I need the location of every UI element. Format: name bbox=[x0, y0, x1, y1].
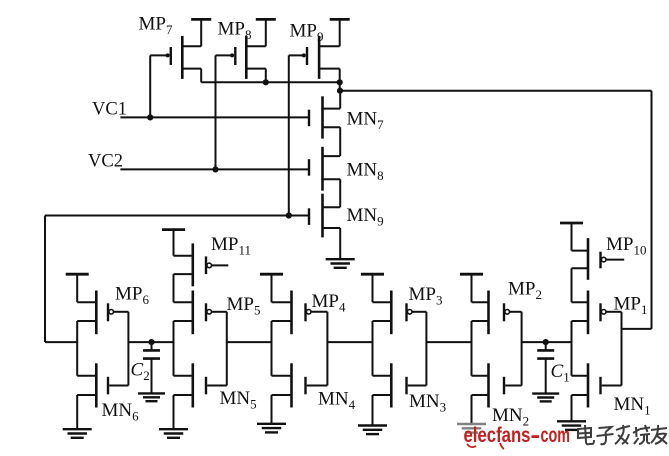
node VC2 junction bbox=[212, 166, 218, 172]
label MN9 bbox=[347, 205, 384, 229]
wire chain feedback to stage6 output bbox=[45, 341, 77, 343]
svg-text:MN1: MN1 bbox=[614, 394, 651, 418]
label MP6 bbox=[115, 284, 149, 308]
label MP5 bbox=[227, 294, 261, 318]
label MP4 bbox=[312, 291, 346, 315]
transistor MP1 bbox=[572, 291, 622, 335]
svg-text:MN7: MN7 bbox=[347, 109, 385, 133]
node PMOS drain junction bbox=[337, 79, 343, 85]
label VC1 bbox=[92, 100, 127, 120]
svg-text:MN4: MN4 bbox=[318, 389, 356, 413]
label MN5 bbox=[220, 388, 257, 412]
label MN7 bbox=[347, 109, 385, 133]
logo elecfans.com watermark bbox=[464, 424, 571, 449]
wire left feedback down bbox=[44, 216, 46, 343]
svg-text:MP7: MP7 bbox=[139, 14, 173, 38]
power VDD symbol above MP2 bbox=[460, 274, 483, 302]
transistor MP7 bbox=[150, 36, 201, 79]
wire output to right edge bbox=[340, 90, 652, 92]
svg-text:MP2: MP2 bbox=[508, 279, 542, 303]
wire stage6 input to stage5 output bbox=[128, 341, 173, 343]
power VDD symbol above MP8 bbox=[256, 19, 276, 46]
wire stage5 input to stage4 output bbox=[227, 341, 272, 343]
label MN3 bbox=[409, 391, 446, 415]
node C2 junction bbox=[148, 339, 154, 345]
node VC1 junction bbox=[147, 114, 153, 120]
wire PMOS drain rail bbox=[201, 81, 340, 83]
power VDD symbol above MP11 bbox=[162, 230, 185, 256]
label MP10 bbox=[606, 234, 646, 258]
wire MN4 source down bbox=[271, 395, 273, 424]
label MN6 bbox=[102, 400, 140, 424]
node C1 junction bbox=[543, 339, 549, 345]
wire stage5 input rail bbox=[226, 312, 228, 386]
svg-text:MP10: MP10 bbox=[606, 234, 646, 258]
transistor MN3 bbox=[373, 363, 427, 407]
svg-text:MN9: MN9 bbox=[347, 205, 384, 229]
wire MN9 source down bbox=[339, 228, 341, 259]
wire MP2-MN2 drain rail bbox=[471, 321, 473, 376]
ground below MN3 bbox=[358, 426, 387, 435]
capacitor C1 bbox=[537, 342, 554, 394]
wire MP9 gate to MN9 net bbox=[288, 55, 290, 215]
svg-text:C1: C1 bbox=[551, 361, 570, 385]
label C2 bbox=[131, 360, 150, 384]
wire MP5-MN5 drain rail bbox=[173, 321, 175, 376]
transistor MN2 bbox=[472, 363, 522, 407]
ground below MN9 bbox=[326, 259, 355, 268]
wire MN7-MN8 link bbox=[339, 127, 341, 156]
label MP3 bbox=[409, 284, 443, 308]
label MP8 bbox=[218, 19, 252, 43]
ground below MN5 bbox=[159, 429, 188, 438]
wire MP7 drain down bbox=[200, 69, 202, 83]
svg-text:MP3: MP3 bbox=[409, 284, 443, 308]
wire MN7 drain up bbox=[339, 91, 341, 109]
label MN2 bbox=[492, 405, 529, 429]
svg-text:MN8: MN8 bbox=[347, 160, 384, 184]
svg-text:MP4: MP4 bbox=[312, 291, 346, 315]
wire MP7 gate to VC1 bbox=[149, 55, 151, 117]
node MP8 drain junction bbox=[263, 79, 269, 85]
wire feedback into stage1 input bbox=[622, 328, 652, 330]
wire VC1 line bbox=[120, 116, 308, 118]
power VDD symbol above MP4 bbox=[260, 274, 283, 302]
svg-text:C2: C2 bbox=[131, 360, 150, 384]
svg-text:MP9: MP9 bbox=[290, 21, 324, 45]
transistor MN6 bbox=[77, 363, 128, 407]
svg-text:MP5: MP5 bbox=[227, 294, 261, 318]
wire stage3 input rail bbox=[425, 312, 427, 386]
svg-text:MN6: MN6 bbox=[102, 400, 140, 424]
label MP11 bbox=[211, 234, 251, 258]
transistor MP9 bbox=[289, 36, 340, 79]
wire MP6-MN6 drain rail bbox=[76, 321, 78, 376]
transistor MP10 bbox=[572, 238, 625, 280]
svg-text:MP8: MP8 bbox=[218, 19, 252, 43]
ground below MN4 bbox=[257, 424, 286, 433]
label MN1 bbox=[614, 394, 651, 418]
label C1 bbox=[551, 361, 570, 385]
wire stage6 input rail bbox=[127, 312, 129, 386]
label VC2 bbox=[88, 152, 123, 172]
wire MP11 drain to MP5 source bbox=[173, 274, 175, 302]
svg-text:VC2: VC2 bbox=[88, 152, 123, 172]
wire stage4 input rail bbox=[326, 312, 328, 386]
wire MN2 source down bbox=[471, 395, 473, 424]
node MP9 gate junction bbox=[286, 212, 292, 218]
wire MP9 drain down bbox=[339, 69, 341, 83]
transistor MP5 bbox=[174, 291, 227, 335]
transistor MP8 bbox=[216, 36, 266, 79]
wire MN3 source down bbox=[372, 395, 374, 426]
svg-text:com: com bbox=[541, 424, 571, 447]
logo Chinese watermark text bbox=[578, 425, 667, 444]
label MP7 bbox=[139, 14, 173, 38]
wire stage4 input to stage3 output bbox=[327, 341, 372, 343]
wire MN5 source down bbox=[173, 395, 175, 429]
wire stage1 input rail bbox=[621, 312, 623, 386]
ground below MN1 bbox=[557, 421, 586, 430]
capacitor C2 bbox=[143, 342, 160, 393]
node oscillator output node bbox=[337, 88, 343, 94]
ground below MN6 bbox=[63, 429, 92, 438]
power VDD symbol above MP6 bbox=[66, 274, 89, 302]
svg-text:MP6: MP6 bbox=[115, 284, 149, 308]
wire MP4-MN4 drain rail bbox=[271, 321, 273, 376]
wire stage2 input to stage1 output bbox=[522, 341, 572, 343]
wire MN6 source down bbox=[76, 395, 78, 429]
transistor MN4 bbox=[272, 363, 328, 407]
wire MN9 gate net bbox=[45, 215, 308, 217]
label MN4 bbox=[318, 389, 356, 413]
transistor MN9 bbox=[309, 194, 340, 238]
transistor MP6 bbox=[77, 291, 128, 335]
svg-text:MP11: MP11 bbox=[211, 234, 251, 258]
wire MP10 drain to MP1 source bbox=[571, 268, 573, 302]
label MP2 bbox=[508, 279, 542, 303]
wire MP3-MN3 drain rail bbox=[372, 321, 374, 376]
wire MN1 source down bbox=[571, 395, 573, 421]
ground below C2 bbox=[138, 393, 165, 401]
ground below C1 bbox=[532, 394, 559, 402]
wire VC2 line bbox=[120, 168, 308, 170]
wire MP8 gate to VC2 bbox=[215, 55, 217, 169]
wire stage2 input rail bbox=[521, 312, 523, 386]
svg-text:MN5: MN5 bbox=[220, 388, 257, 412]
power VDD symbol above MP3 bbox=[361, 274, 384, 302]
label MP1 bbox=[614, 294, 648, 318]
label MP9 bbox=[290, 21, 324, 45]
svg-text:elecfans: elecfans bbox=[464, 424, 531, 447]
transistor MN1 bbox=[572, 363, 622, 407]
transistor MN8 bbox=[309, 147, 340, 191]
transistor MP4 bbox=[272, 291, 328, 335]
label MN8 bbox=[347, 160, 384, 184]
transistor MN7 bbox=[309, 96, 340, 138]
wire MN8-MN9 link bbox=[339, 179, 341, 207]
wire MP8 drain down bbox=[265, 69, 267, 83]
transistor MN5 bbox=[174, 363, 227, 407]
wire MP1-MN1 drain rail bbox=[571, 321, 573, 376]
power VDD symbol above MP9 bbox=[330, 19, 350, 46]
transistor MP3 bbox=[373, 291, 427, 335]
wire stage3 input to stage2 output bbox=[426, 341, 471, 343]
svg-text:MN3: MN3 bbox=[409, 391, 446, 415]
power VDD symbol above MP10 bbox=[560, 223, 583, 251]
power VDD symbol above MP7 bbox=[191, 19, 211, 46]
transistor MP11 bbox=[174, 243, 229, 286]
ground below MN2 bbox=[457, 424, 486, 433]
svg-text:MP1: MP1 bbox=[614, 294, 648, 318]
transistor MP2 bbox=[472, 291, 522, 335]
wire right feedback down bbox=[651, 91, 653, 329]
wire node link bbox=[339, 82, 341, 90]
